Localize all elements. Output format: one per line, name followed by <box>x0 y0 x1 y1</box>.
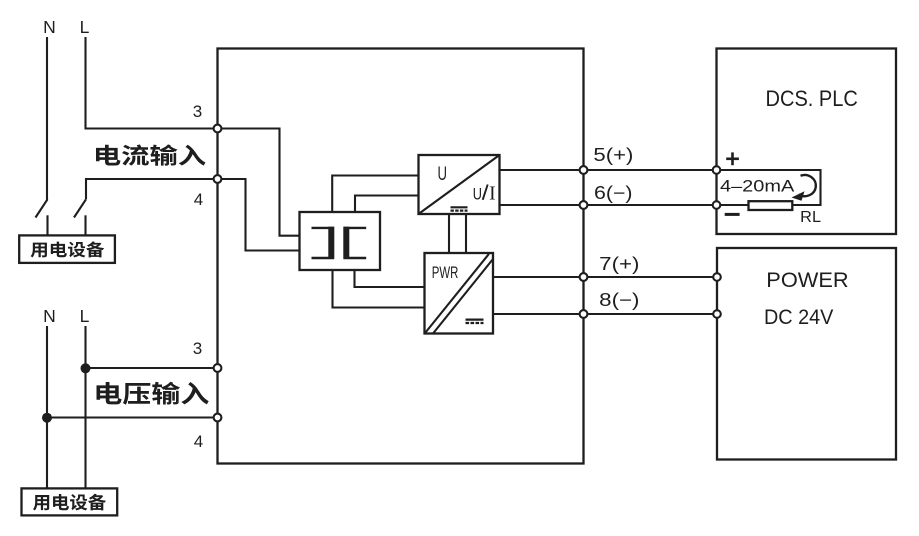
wire U/I to PWR (right) <box>465 214 467 253</box>
svg-text:4–20mA: 4–20mA <box>720 177 794 195</box>
label 电压输入 (voltage input) <box>96 382 208 405</box>
wire L line to terminal 3 <box>86 37 218 129</box>
switch S1 blade (N line) <box>36 199 48 217</box>
label - polarity <box>725 213 740 216</box>
wire node4 to transformer primary bottom <box>218 179 300 251</box>
terminal node 8 <box>580 310 588 318</box>
svg-text:RL: RL <box>800 209 821 226</box>
node on DCS + <box>713 166 721 174</box>
switch S2 lower contact <box>84 215 86 235</box>
svg-text:4: 4 <box>194 190 203 209</box>
terminal node 3 (top) <box>214 125 222 133</box>
svg-text:7(+): 7(+) <box>599 254 639 274</box>
wire N line (top section) <box>46 37 48 200</box>
svg-text:I: I <box>489 184 496 205</box>
terminal node 4 (top) <box>214 175 222 183</box>
U/I converter diagonal <box>419 155 500 214</box>
wire output 5(+) <box>500 169 717 171</box>
svg-text:N: N <box>43 306 56 326</box>
svg-text:L: L <box>80 17 90 37</box>
svg-text:8(−): 8(−) <box>599 290 639 310</box>
load box 用电设备 (bottom) <box>22 488 118 515</box>
DC symbol in PWR box <box>466 320 484 323</box>
terminal node 4 (bottom) <box>214 414 222 422</box>
svg-text:3: 3 <box>193 339 202 358</box>
wire output 6(-) <box>500 204 717 206</box>
wire terminal 4 (bottom) <box>47 416 218 418</box>
PWR power supply box <box>425 253 494 334</box>
terminal node 7 <box>580 273 588 281</box>
label 电流输入 (current input) <box>96 144 205 165</box>
wire L line (bottom section) <box>84 326 86 488</box>
svg-text:DC 24V: DC 24V <box>764 305 834 329</box>
terminal node 3 (bottom) <box>214 364 222 372</box>
svg-text:POWER: POWER <box>766 268 848 292</box>
transformer T1 box <box>300 212 381 270</box>
wire transformer to PWR (lower) <box>333 270 425 308</box>
wire power 8(-) <box>493 313 717 315</box>
current loop wire (left of resistor) <box>717 204 749 206</box>
svg-text:DCS. PLC: DCS. PLC <box>766 86 858 111</box>
switch S2 blade (L branch) <box>74 199 86 217</box>
wire terminal 3 (bottom) <box>86 367 218 369</box>
wire power 7(+) <box>493 276 717 278</box>
wire transformer secondary to U converter (upper) <box>332 176 418 213</box>
DC symbol in U/I box <box>451 207 468 210</box>
svg-text:4: 4 <box>194 432 203 451</box>
node on POWER - <box>713 310 721 318</box>
terminal node 6 <box>580 201 588 209</box>
svg-text:PWR: PWR <box>432 263 459 282</box>
svg-text:U: U <box>438 163 448 185</box>
svg-text:N: N <box>43 17 56 37</box>
wire node3 to transformer primary top <box>218 129 300 236</box>
svg-text:L: L <box>80 306 90 326</box>
label 用电设备 (bottom load) <box>33 494 106 511</box>
wire N line (bottom section) <box>46 326 48 488</box>
DCS PLC box <box>717 49 897 235</box>
label + polarity <box>726 152 739 165</box>
current direction arrow <box>799 175 816 196</box>
junction dot on L line <box>81 363 91 373</box>
POWER box <box>717 248 896 460</box>
U/I converter box <box>419 155 500 214</box>
PWR diagonal (double line) <box>426 254 490 333</box>
wire U/I to PWR (left) <box>448 214 450 253</box>
label 用电设备 (top load) <box>31 241 105 257</box>
current loop wire (right leg) <box>717 170 821 205</box>
wire transformer secondary to U converter (lower) <box>355 196 419 213</box>
svg-text:6(−): 6(−) <box>594 183 633 203</box>
svg-text:3: 3 <box>193 102 202 121</box>
switch S1 lower contact <box>46 215 48 235</box>
node on POWER + <box>713 273 721 281</box>
wire terminal 4 to switch branch <box>86 179 218 199</box>
svg-text:U: U <box>473 184 482 203</box>
resistor RL <box>749 201 793 210</box>
svg-text:5(+): 5(+) <box>593 145 633 165</box>
isolator module outline <box>218 49 584 464</box>
load box 用电设备 (top) <box>19 235 115 263</box>
transformer T1 core symbol <box>312 228 367 258</box>
terminal node 5 <box>580 166 588 174</box>
wire transformer to PWR (upper) <box>355 270 425 287</box>
junction dot on N line <box>42 413 52 423</box>
node on DCS - <box>713 201 721 209</box>
